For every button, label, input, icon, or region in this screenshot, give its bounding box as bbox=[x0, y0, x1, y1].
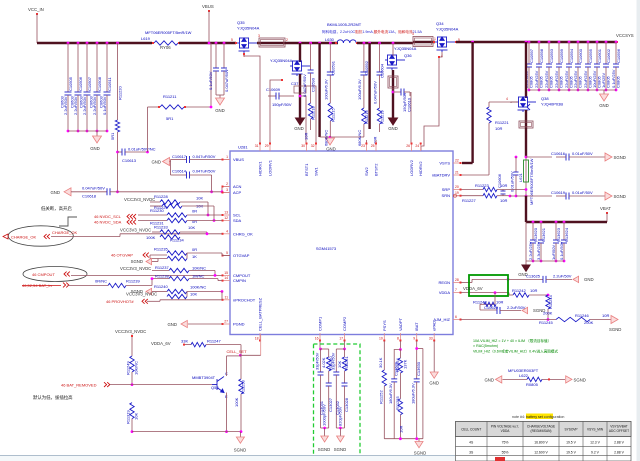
ground SGND arrow filter2 bbox=[605, 192, 612, 200]
wire bus through sense box bbox=[257, 42, 285, 44]
net CMPOUT port bbox=[23, 267, 87, 282]
svg-text:C10505: C10505 bbox=[68, 76, 73, 91]
svg-text:17: 17 bbox=[339, 337, 343, 341]
svg-text:C0603: C0603 bbox=[69, 95, 74, 108]
svg-text:10R: 10R bbox=[496, 300, 503, 305]
svg-text:32: 32 bbox=[311, 144, 315, 148]
svg-text:R0805: R0805 bbox=[526, 382, 539, 387]
svg-text:R11220: R11220 bbox=[118, 86, 123, 100]
svg-text:VBUS: VBUS bbox=[202, 4, 214, 9]
ground GND left cap bank bbox=[96, 131, 98, 136]
capacitor C10595 bbox=[587, 41, 590, 44]
svg-text:SDA: SDA bbox=[233, 218, 242, 223]
pin 15 CMPOUT bbox=[222, 274, 230, 276]
svg-text:VADPT: VADPT bbox=[398, 317, 403, 331]
pin 12 SDA bbox=[222, 220, 230, 222]
svg-text:HIDRV2: HIDRV2 bbox=[418, 161, 423, 176]
pin 13 SCL bbox=[222, 214, 230, 216]
capacitor C13032 comp2 bbox=[336, 348, 344, 350]
svg-text:CELL COUNT: CELL COUNT bbox=[461, 428, 481, 432]
svg-text:SGND: SGND bbox=[334, 447, 346, 452]
capacitor C10592 100uF/6.3V bbox=[363, 42, 366, 45]
svg-text:PGND: PGND bbox=[233, 322, 245, 327]
wire bus after L630 bbox=[357, 42, 413, 44]
svg-text:15: 15 bbox=[224, 271, 228, 275]
resistor R11253 100K bbox=[239, 379, 243, 394]
svg-text:10K: 10K bbox=[188, 225, 195, 230]
ground SGND arrow C10620 bbox=[522, 307, 528, 313]
capacitor C13027 comp1 bbox=[328, 371, 330, 383]
svg-text:100K: 100K bbox=[146, 235, 156, 240]
svg-text:21: 21 bbox=[455, 171, 459, 175]
svg-text:OTGVAP: OTGVAP bbox=[233, 253, 250, 258]
svg-text:10K/NC: 10K/NC bbox=[192, 266, 206, 271]
svg-text:46 CMPOUT: 46 CMPOUT bbox=[32, 272, 55, 277]
svg-text:16.800 V: 16.800 V bbox=[534, 441, 548, 445]
svg-text:9.2 V: 9.2 V bbox=[591, 450, 600, 454]
ground SGND bottom left bbox=[239, 432, 241, 437]
svg-text:30: 30 bbox=[301, 144, 305, 148]
wire COMP1 down bbox=[319, 341, 321, 349]
svg-text:C10613: C10613 bbox=[122, 158, 137, 163]
svg-text:C10606: C10606 bbox=[497, 173, 502, 188]
wire LODRV2 up to Q36 gate bbox=[410, 92, 412, 143]
svg-text:默认为低，拔插拉高: 默认为低，拔插拉高 bbox=[33, 394, 73, 401]
svg-text:12.600 V: 12.600 V bbox=[534, 450, 548, 454]
svg-text:GND: GND bbox=[388, 126, 398, 131]
wire left gnd rail bbox=[320, 136, 364, 138]
svg-text:YJQ35N04A: YJQ35N04A bbox=[237, 26, 260, 31]
svg-text:MMBT3904T: MMBT3904T bbox=[192, 375, 216, 380]
svg-text:1M/NC: 1M/NC bbox=[192, 274, 205, 279]
wire bus through sense box 2 bbox=[413, 41, 435, 43]
svg-text:C10593: C10593 bbox=[549, 48, 554, 63]
wire SRN to L621 bottom bbox=[516, 195, 526, 197]
wire LODRV1 to gate bbox=[270, 80, 282, 143]
svg-text:L622: L622 bbox=[519, 373, 529, 378]
svg-text:VSYS_MIN: VSYS_MIN bbox=[587, 428, 604, 432]
svg-text:BTST2: BTST2 bbox=[374, 163, 379, 176]
svg-text:VCC3V3_NVDC: VCC3V3_NVDC bbox=[120, 228, 151, 233]
sense box Q38 bbox=[519, 121, 533, 128]
pin 21 nBATDRV bbox=[453, 174, 461, 176]
svg-text:3: 3 bbox=[258, 34, 260, 38]
svg-text:GND: GND bbox=[429, 381, 439, 386]
capacitor C13624 bbox=[563, 221, 566, 224]
svg-text:C10616: C10616 bbox=[551, 151, 566, 156]
svg-text:3: 3 bbox=[412, 32, 414, 36]
svg-text:1K: 1K bbox=[192, 254, 197, 259]
svg-text:C13630: C13630 bbox=[416, 361, 421, 376]
sense box input Q34 bbox=[413, 37, 433, 47]
svg-text:46 OTGVAP: 46 OTGVAP bbox=[111, 253, 133, 258]
capacitor C10606 bbox=[502, 190, 504, 192]
wire OTGVAP pin bbox=[221, 253, 223, 256]
capacitor C10591 100uF/6.3V bbox=[329, 42, 332, 45]
svg-text:MFT06ER005FT/5mR/1W: MFT06ER005FT/5mR/1W bbox=[529, 158, 534, 205]
svg-text:0R: 0R bbox=[192, 219, 197, 224]
svg-text:10R: 10R bbox=[530, 288, 537, 293]
svg-text:6: 6 bbox=[455, 315, 457, 319]
pin 25 BTST2 bbox=[375, 143, 377, 151]
wire Q52 emitter bbox=[226, 393, 228, 432]
wire VADPT down bbox=[399, 341, 401, 350]
svg-text:9: 9 bbox=[413, 337, 415, 341]
svg-text:R11255: R11255 bbox=[395, 396, 400, 410]
svg-text:10R: 10R bbox=[398, 426, 403, 433]
svg-text:R11246: R11246 bbox=[575, 313, 589, 318]
svg-text:1uF/50V: 1uF/50V bbox=[551, 245, 556, 260]
resistor R11319 10K bbox=[130, 403, 134, 419]
wire CHARGE_OK to pin bbox=[51, 236, 120, 238]
svg-text:5: 5 bbox=[231, 38, 233, 42]
resistor R11251 comp2 bbox=[344, 349, 346, 357]
wire ACN sense branch vertical bbox=[210, 43, 212, 107]
highlight green box VDDA bbox=[469, 275, 508, 296]
svg-text:C10508: C10508 bbox=[97, 76, 102, 91]
svg-text:1: 1 bbox=[226, 155, 228, 159]
svg-text:26: 26 bbox=[406, 144, 410, 148]
wire Q2 source to GND bbox=[299, 74, 301, 118]
compensation network box bbox=[314, 344, 361, 458]
capacitor C10612 0.1uF/50V bbox=[215, 42, 218, 45]
pin 16 COMP1 bbox=[319, 333, 321, 341]
resistor R11250 comp1 bbox=[321, 348, 329, 350]
capacitor C13620 bbox=[532, 221, 535, 224]
wire REGN bbox=[461, 282, 472, 284]
svg-text:R11240: R11240 bbox=[154, 284, 168, 289]
svg-text:C13028: C13028 bbox=[344, 397, 349, 412]
svg-text:C10506: C10506 bbox=[78, 76, 83, 91]
pin 3 ACP bbox=[222, 192, 230, 194]
pin 14 CMPIN bbox=[222, 280, 230, 282]
svg-text:R11253: R11253 bbox=[241, 380, 246, 394]
svg-text:12: 12 bbox=[224, 216, 228, 220]
wire ePAD down bbox=[433, 341, 435, 372]
wire bus VCCSYS bbox=[456, 41, 617, 43]
svg-text:10R: 10R bbox=[304, 133, 309, 140]
svg-text:C0805: C0805 bbox=[559, 75, 564, 88]
svg-text:GND: GND bbox=[90, 146, 100, 151]
capacitor C10608 0.047uF/50V bbox=[223, 42, 226, 45]
svg-text:R11319: R11319 bbox=[126, 410, 131, 424]
pin 10 PSYS bbox=[383, 333, 385, 341]
svg-text:C10618: C10618 bbox=[82, 194, 97, 199]
pin 18 CELL_BATPRESZ bbox=[259, 333, 261, 341]
svg-text:C13624: C13624 bbox=[564, 227, 569, 242]
capacitor C10604 0.047uF/50V bbox=[378, 42, 381, 45]
wire nBATDRV bbox=[461, 174, 489, 176]
wire BTST1 up bbox=[300, 96, 306, 143]
filter line1 C10616 bbox=[526, 156, 552, 158]
svg-text:C10596: C10596 bbox=[616, 48, 621, 63]
svg-text:SW2: SW2 bbox=[364, 167, 369, 176]
page right boundary bbox=[637, 0, 640, 461]
ground GND battery caps bbox=[525, 261, 527, 265]
svg-text:GND: GND bbox=[294, 126, 304, 131]
wire Q36 drain from bus bbox=[392, 42, 395, 45]
svg-text:GND: GND bbox=[50, 190, 60, 195]
capacitor C13621 bbox=[540, 221, 543, 224]
svg-text:2.2uF/50V: 2.2uF/50V bbox=[507, 305, 526, 310]
pin 1 VBUS bbox=[222, 159, 230, 161]
wire R11211 to C10613 bbox=[147, 107, 149, 152]
svg-text:CHARGEVOLTAGE: CHARGEVOLTAGE bbox=[527, 425, 555, 429]
svg-text:C0805: C0805 bbox=[549, 75, 554, 88]
svg-text:L621: L621 bbox=[518, 172, 523, 182]
svg-text:R11235: R11235 bbox=[154, 247, 168, 252]
svg-text:16: 16 bbox=[315, 337, 319, 341]
capacitor C10507 bbox=[86, 42, 89, 45]
svg-text:R11251: R11251 bbox=[344, 356, 349, 370]
svg-text:C0603: C0603 bbox=[98, 95, 103, 108]
pin 19 SRN bubble bbox=[454, 194, 457, 197]
capacitor C13028 comp2 bbox=[344, 371, 346, 383]
svg-text:2.2uF/25V: 2.2uF/25V bbox=[528, 241, 533, 260]
capacitor C10594 bbox=[568, 41, 571, 44]
svg-text:VSYS/VBAT: VSYS/VBAT bbox=[610, 425, 628, 429]
wire right cap bank rail bbox=[529, 89, 616, 91]
pin 9 IBAT bbox=[416, 333, 418, 341]
svg-text:100uF/6.3V: 100uF/6.3V bbox=[357, 79, 362, 100]
svg-text:0.047uF/50V: 0.047uF/50V bbox=[302, 74, 307, 97]
svg-text:4S: 4S bbox=[469, 441, 474, 445]
resistor R11220 5R1 bbox=[116, 42, 119, 45]
svg-text:10K: 10K bbox=[134, 413, 139, 420]
svg-text:C10600: C10600 bbox=[578, 48, 583, 63]
svg-text:VSYS: VSYS bbox=[439, 161, 450, 166]
wire thick input cap leg A bbox=[318, 42, 321, 45]
wire C10614 to ACP rail bbox=[211, 175, 213, 192]
wire BAT_REMOVED to base bbox=[110, 384, 132, 386]
svg-text:10K: 10K bbox=[337, 361, 342, 368]
svg-text:3S: 3S bbox=[469, 450, 474, 454]
svg-text:R11211: R11211 bbox=[163, 94, 177, 99]
capacitor C10598 bbox=[538, 41, 541, 44]
svg-text:C10609: C10609 bbox=[266, 87, 281, 92]
svg-text:2: 2 bbox=[286, 38, 288, 42]
ground GND power phase2 bbox=[392, 70, 394, 118]
ground GND arrow REGN bbox=[573, 276, 579, 282]
svg-text:SGND: SGND bbox=[414, 451, 426, 456]
wire VBAT vertical bbox=[525, 196, 527, 222]
svg-text:低关断，高开启: 低关断，高开启 bbox=[41, 205, 72, 212]
svg-text:COMP2: COMP2 bbox=[342, 316, 347, 331]
step waveform glyph bbox=[59, 217, 77, 226]
wire ACP branch bbox=[222, 192, 230, 194]
svg-text:18: 18 bbox=[255, 337, 259, 341]
pin 19 SRN bbox=[453, 195, 461, 197]
svg-text:46 NVDC_SDA: 46 NVDC_SDA bbox=[94, 220, 122, 225]
svg-text:150pF/50V: 150pF/50V bbox=[272, 102, 292, 107]
svg-text:SCL: SCL bbox=[233, 213, 242, 218]
svg-text:180uF/6.3V: 180uF/6.3V bbox=[388, 383, 393, 404]
resistor R11249 10K/NC bbox=[130, 356, 134, 372]
svg-text:GND: GND bbox=[584, 277, 594, 282]
svg-text:4.02K: 4.02K bbox=[321, 357, 326, 368]
svg-text:C0603: C0603 bbox=[88, 95, 93, 108]
svg-text:R11218: R11218 bbox=[311, 106, 316, 120]
svg-text:33pF/50V: 33pF/50V bbox=[315, 352, 320, 370]
resistor R11218 bbox=[308, 103, 312, 119]
svg-text:R11252: R11252 bbox=[378, 390, 383, 404]
pin 17 COMP2 bbox=[344, 333, 346, 341]
svg-text:CELL_SET: CELL_SET bbox=[227, 349, 248, 354]
capacitor C10596 bbox=[615, 41, 618, 44]
svg-text:20: 20 bbox=[455, 185, 459, 189]
wire SRP line bbox=[461, 189, 483, 191]
svg-text:R11219: R11219 bbox=[380, 110, 385, 124]
svg-text:1000pF/50V: 1000pF/50V bbox=[322, 404, 327, 426]
ground SGND sense rail bbox=[418, 439, 420, 442]
capacitor C13031 comp1 bbox=[320, 349, 322, 372]
svg-text:C10598: C10598 bbox=[539, 48, 544, 63]
svg-text:29: 29 bbox=[265, 144, 269, 148]
svg-text:0R: 0R bbox=[192, 247, 197, 252]
svg-text:GND: GND bbox=[484, 377, 494, 382]
svg-text:31: 31 bbox=[255, 144, 259, 148]
svg-text:3: 3 bbox=[226, 188, 228, 192]
svg-text:R11215: R11215 bbox=[330, 108, 335, 122]
svg-text:ePAD: ePAD bbox=[432, 321, 437, 331]
svg-text:C10597: C10597 bbox=[529, 48, 534, 63]
svg-text:12.3 V: 12.3 V bbox=[590, 441, 601, 445]
pin 29 LODRV1 bbox=[269, 143, 271, 151]
svg-text:0.047uF/50V: 0.047uF/50V bbox=[193, 154, 216, 159]
svg-text:R11247: R11247 bbox=[207, 339, 221, 344]
wire battery cap rail bbox=[525, 222, 527, 261]
wire bus after fuse bbox=[179, 42, 236, 44]
ground GND power phase1 bbox=[296, 118, 305, 125]
svg-text:GND: GND bbox=[167, 322, 177, 327]
svg-text:25: 25 bbox=[371, 144, 375, 148]
wire Q52 collector bbox=[226, 356, 228, 376]
svg-text:SGND: SGND bbox=[131, 259, 143, 264]
wire VCC_IN vertical bbox=[36, 14, 38, 43]
svg-text:R11249: R11249 bbox=[126, 361, 131, 375]
wire PROCHOT pin bbox=[147, 300, 160, 302]
wire filter join vertical bbox=[170, 161, 171, 163]
svg-text:19.5 V: 19.5 V bbox=[566, 450, 577, 454]
svg-text:SGND: SGND bbox=[574, 377, 586, 382]
wire COMP2 down bbox=[344, 341, 346, 349]
svg-text:C0603: C0603 bbox=[59, 95, 64, 108]
wire bus to switch node bbox=[285, 42, 338, 44]
table battery set configuration title bbox=[526, 414, 553, 420]
pin 26 LODRV2 bbox=[411, 143, 413, 151]
ground GND right cap bank bbox=[603, 90, 605, 94]
wire comp1 join bbox=[321, 427, 329, 429]
svg-text:C10619: C10619 bbox=[551, 190, 566, 195]
resistor R11216 bbox=[362, 108, 366, 124]
svg-text:ADC OFFSET: ADC OFFSET bbox=[609, 429, 629, 433]
svg-text:C13623: C13623 bbox=[556, 227, 561, 242]
resistor R11219 bbox=[377, 108, 381, 124]
capacitor C10599 bbox=[558, 41, 561, 44]
svg-text:137K: 137K bbox=[402, 359, 407, 369]
wire SW1 up bbox=[306, 86, 316, 143]
svg-text:(REGM/6SAN): (REGM/6SAN) bbox=[531, 429, 552, 433]
capacitor C10506 bbox=[77, 42, 80, 45]
sense box R current bbox=[259, 38, 285, 47]
svg-text:LODRV2: LODRV2 bbox=[409, 159, 414, 176]
svg-text:R11227: R11227 bbox=[462, 198, 476, 203]
ground GND arrow PGND bbox=[181, 320, 187, 327]
svg-text:C10592: C10592 bbox=[364, 60, 369, 75]
svg-text:180uF/6.3V: 180uF/6.3V bbox=[411, 383, 416, 404]
svg-text:C10602: C10602 bbox=[606, 48, 611, 63]
svg-text:VCC3V3_NVDC: VCC3V3_NVDC bbox=[124, 197, 155, 202]
svg-text:R11233: R11233 bbox=[154, 225, 168, 230]
svg-text:CMPIN: CMPIN bbox=[233, 278, 246, 283]
svg-text:55%: 55% bbox=[502, 450, 509, 454]
svg-text:C13027: C13027 bbox=[328, 397, 333, 412]
svg-text:VDDA: VDDA bbox=[501, 429, 511, 433]
svg-text:Q36: Q36 bbox=[404, 53, 412, 58]
svg-text:28: 28 bbox=[455, 278, 459, 282]
svg-text:75%: 75% bbox=[502, 441, 509, 445]
pin 5 OTGVAP bbox=[222, 255, 230, 257]
ground GND mid arrow bbox=[329, 136, 332, 139]
wire CELL_SET vertical bbox=[240, 345, 242, 379]
wire VBAT rail bbox=[526, 221, 607, 223]
svg-text:C10617: C10617 bbox=[172, 154, 187, 159]
svg-text:C10601: C10601 bbox=[597, 48, 602, 63]
wire main input bus bbox=[37, 42, 152, 44]
ground GND arrow C10618 bbox=[64, 188, 71, 196]
svg-text:C0805: C0805 bbox=[529, 75, 534, 88]
svg-text:0R/NC: 0R/NC bbox=[95, 279, 107, 284]
svg-text:CHRG_OK: CHRG_OK bbox=[233, 231, 253, 236]
svg-text:46 NVDC_SCL: 46 NVDC_SCL bbox=[94, 214, 122, 219]
svg-text:14: 14 bbox=[224, 276, 228, 280]
svg-text:3.3uF/25V: 3.3uF/25V bbox=[536, 241, 541, 260]
svg-text:33pF/50V: 33pF/50V bbox=[330, 352, 335, 370]
svg-text:R11221: R11221 bbox=[495, 120, 509, 125]
ground SGND comp1 bbox=[321, 436, 329, 442]
svg-text:R11238: R11238 bbox=[155, 274, 169, 279]
svg-text:33K: 33K bbox=[181, 339, 188, 344]
svg-text:VCC3V3_NVDC: VCC3V3_NVDC bbox=[115, 329, 146, 334]
wire cap bank bottom rail bbox=[68, 130, 107, 132]
capacitor C13623 bbox=[555, 221, 558, 224]
svg-text:10R: 10R bbox=[500, 198, 507, 203]
svg-text:200K: 200K bbox=[543, 311, 553, 316]
wire comp2 join bbox=[336, 427, 344, 429]
svg-text:C10590: C10590 bbox=[311, 77, 316, 92]
wire VCC3V3 to R11249 bbox=[131, 335, 133, 357]
svg-text:2.2uF/50V: 2.2uF/50V bbox=[553, 274, 572, 279]
capacitor C10593 bbox=[548, 41, 551, 44]
wire CMPOUT to pin bbox=[71, 274, 222, 276]
capacitor C10600 bbox=[577, 41, 580, 44]
svg-text:SYSOVP: SYSOVP bbox=[564, 428, 577, 432]
page bottom boundary bbox=[0, 456, 455, 461]
svg-text:L630: L630 bbox=[325, 37, 335, 42]
svg-text:VDDA_6V: VDDA_6V bbox=[151, 341, 171, 346]
capacitor C10505 bbox=[67, 42, 70, 45]
svg-text:COMP1: COMP1 bbox=[318, 316, 323, 331]
svg-text:5R1: 5R1 bbox=[110, 132, 115, 140]
svg-text:0.1uF/50V: 0.1uF/50V bbox=[559, 241, 564, 260]
svg-text:0.01uF/50V: 0.01uF/50V bbox=[572, 190, 593, 195]
svg-text:C0805: C0805 bbox=[578, 75, 583, 88]
svg-text:2: 2 bbox=[226, 182, 228, 186]
svg-text:SW1: SW1 bbox=[314, 167, 319, 176]
svg-text:R11237: R11237 bbox=[155, 265, 169, 270]
svg-text:L619: L619 bbox=[141, 36, 151, 41]
svg-text:4: 4 bbox=[226, 229, 228, 233]
